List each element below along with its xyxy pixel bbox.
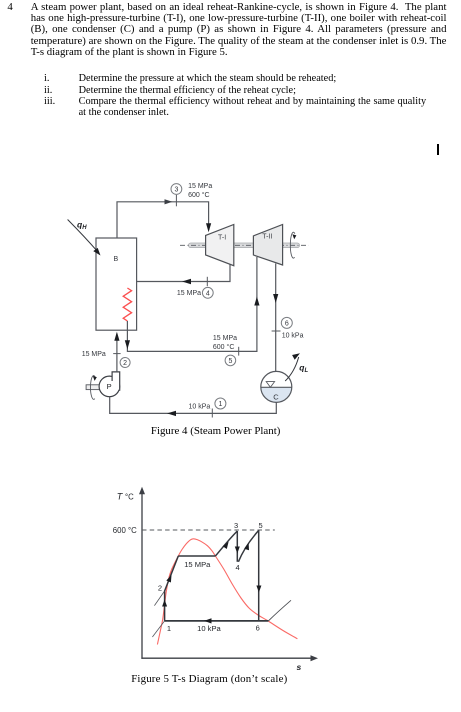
wire arrow up into boiler [114,332,119,341]
wire arrow left [167,411,176,416]
Figure 4 caption [151,425,280,437]
cycle 5-6 expansion [258,530,260,621]
shaft rotation arrow [290,232,295,258]
svg-text:6: 6 [256,624,260,633]
svg-text:15 MPa: 15 MPa [184,560,211,569]
wire T-I-to-boiler reheat (node 4 line) [127,263,230,288]
svg-text:T °C: T °C [117,492,134,502]
wire arrow right on node3 line [165,199,173,204]
node 5 tick [238,347,240,356]
svg-text:T-I: T-I [218,235,226,242]
svg-text:15 MPa: 15 MPa [177,290,201,297]
vapor line stub right of 6 [268,600,291,621]
dashed 600C line [142,529,275,531]
cycle 4-5 reheat [238,530,258,561]
list [44,73,74,107]
svg-text:qL: qL [299,363,308,375]
saturation dome (red) [157,539,297,645]
svg-text:1: 1 [218,401,222,408]
svg-text:2: 2 [158,584,162,593]
pump rotation arrow [90,376,95,400]
svg-text:4: 4 [236,563,240,572]
node 1 tick [211,409,213,418]
s axis [141,657,314,659]
node 4 [202,287,213,298]
turbine T-I [206,225,234,266]
svg-text:3: 3 [174,187,178,194]
turbine T-II [253,225,282,266]
stray cursor bar [437,144,439,155]
svg-text:15 MPa: 15 MPa [82,351,106,358]
node 5 [225,355,236,366]
T axis [141,491,143,659]
svg-text:5: 5 [259,521,263,530]
wire arrow down [273,294,278,303]
svg-text:600 °C: 600 °C [188,191,209,199]
svg-text:B: B [114,256,119,263]
boiler B [96,238,137,330]
svg-text:P: P [107,382,112,391]
node 6 tick [272,330,281,332]
svg-text:600 °C: 600 °C [113,526,137,535]
svg-text:6: 6 [285,321,289,328]
wire boiler-to-T-II reheat return (node 5 line) [127,257,257,351]
svg-text:qH: qH [77,220,87,232]
wire T-II-to-condenser (node 6 line) [275,264,277,372]
qH arrow [68,220,98,252]
svg-text:1: 1 [167,624,171,633]
turbine shaft [189,243,300,248]
svg-text:s: s [297,662,302,672]
cycle 3-4 expansion [236,531,238,562]
problem number 4 [7,2,21,13]
sat liquid line stub below 2 [154,591,164,606]
qL arrow [285,357,299,381]
svg-text:10 kPa: 10 kPa [197,624,221,633]
wire arrow down into T-I [206,223,211,232]
cycle 1-2 [165,556,179,621]
svg-text:4: 4 [206,290,210,297]
svg-text:10 kPa: 10 kPa [282,333,304,340]
cycle 6-1 condensation [165,620,269,622]
node 1 [215,398,226,409]
paragraph [31,2,447,59]
svg-text:15 MPa: 15 MPa [188,183,212,190]
reheat coil (red zigzag) [123,288,131,321]
Figure 5 caption [131,673,287,685]
node 3 [171,184,182,195]
node 6 [281,317,292,328]
svg-text:600 °C: 600 °C [213,343,234,351]
node 3 tick [175,195,177,207]
wire pump-to-boiler (node 2 line) [116,334,118,372]
svg-text:3: 3 [234,521,238,530]
pump shaft [86,385,100,390]
node 4 tick [206,277,208,286]
svg-text:10 kPa: 10 kPa [189,403,211,410]
svg-text:T-II: T-II [262,233,272,240]
pump P [99,376,120,397]
svg-text:2: 2 [123,360,127,367]
cycle 15 MPa boiling line [178,555,215,557]
sat liquid line stub below 1 [152,621,164,637]
wire boiler-to-T-I (node 3 line) [117,202,209,238]
svg-text:15 MPa: 15 MPa [213,335,237,342]
wire arrow left on node4 line [182,279,191,284]
wire arrow up into T-II [254,297,259,306]
cycle superheat to 3 [215,531,237,556]
node 2 [120,358,130,368]
wire condenser-to-pump (node 1 line) [110,397,277,414]
condenser C [261,387,292,402]
svg-text:C: C [273,392,279,401]
node 2 tick [113,353,120,355]
svg-text:5: 5 [228,358,232,365]
wire arrow down before corner [125,340,130,349]
